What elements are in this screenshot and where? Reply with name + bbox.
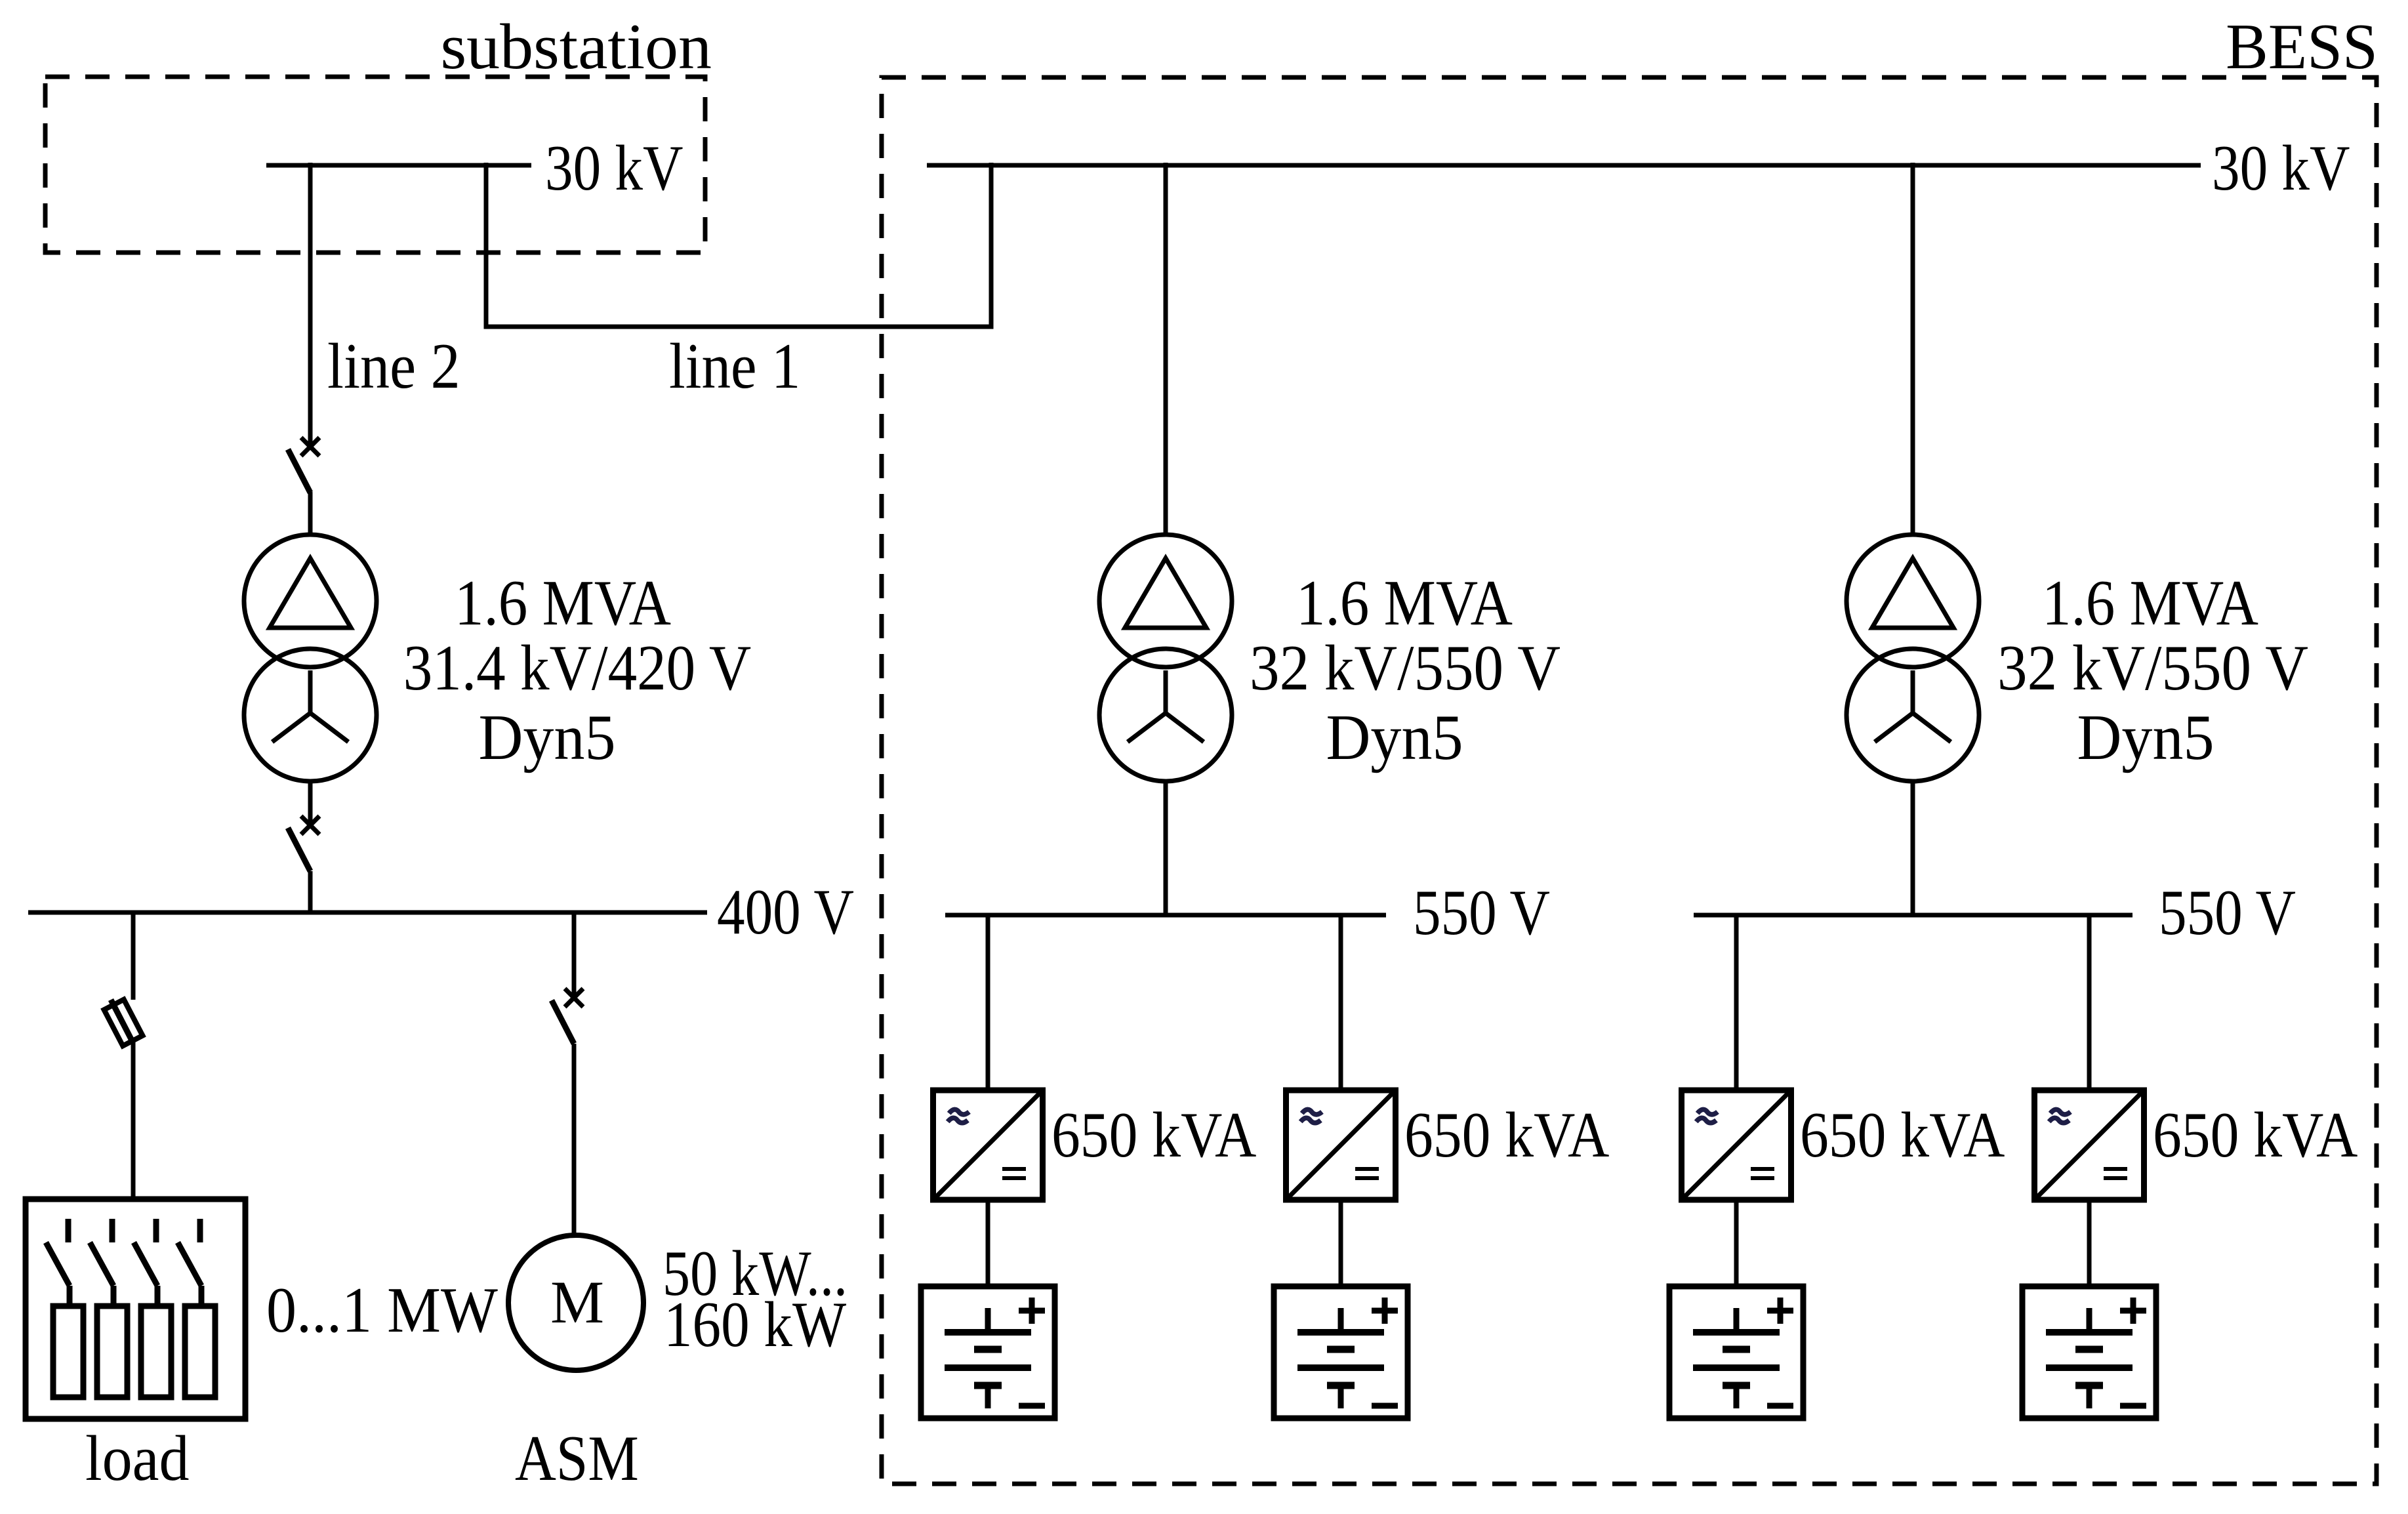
transformer T3 1.6 MVA 32 kV/550 V Dyn5 bbox=[1847, 535, 1979, 667]
svg-text:1.6 MVA: 1.6 MVA bbox=[455, 567, 671, 639]
switch S3 (motor switch) bbox=[565, 989, 583, 1007]
wire T2 to 550 V bus 1 bbox=[1164, 781, 1168, 915]
converter U4 AC/DC 650 kVA bbox=[2035, 1090, 2144, 1200]
dashed box BESS bbox=[882, 77, 2377, 1484]
wire T1 to switch S2 bbox=[308, 781, 313, 825]
wire T3 to 550 V bus 2 bbox=[1911, 781, 1915, 915]
fuse F1 with blade bbox=[111, 1000, 133, 1043]
wire 550 V bus left to converter U1 bbox=[986, 915, 990, 1090]
converter U3 AC/DC 650 kVA bbox=[1682, 1090, 1791, 1200]
wire converter U1 to battery B1 bbox=[986, 1200, 990, 1286]
wire 550 V bus left to converter U2 bbox=[1339, 915, 1343, 1090]
svg-text:Dyn5: Dyn5 bbox=[479, 701, 616, 773]
motor M1 ASM bbox=[508, 1235, 643, 1370]
wire S2 to 400 V bus bbox=[308, 871, 313, 912]
svg-text:550 V: 550 V bbox=[1413, 876, 1550, 948]
busbar 30 kV BESS bbox=[927, 163, 2201, 168]
wire converter U2 to battery B2 bbox=[1339, 1200, 1343, 1286]
svg-text:line 1: line 1 bbox=[669, 331, 800, 402]
svg-text:650 kVA: 650 kVA bbox=[1051, 1099, 1256, 1171]
wire 400 V bus to fuse F1 bbox=[131, 910, 136, 1000]
svg-text:load: load bbox=[85, 1422, 189, 1494]
svg-text:ASM: ASM bbox=[515, 1423, 639, 1494]
svg-text:M: M bbox=[550, 1269, 604, 1336]
wire 550 V bus right to converter U3 bbox=[1734, 915, 1739, 1090]
svg-text:550 V: 550 V bbox=[2159, 876, 2296, 948]
svg-text:0...1 MW: 0...1 MW bbox=[266, 1274, 499, 1346]
battery B4 (storage unit) bbox=[2022, 1286, 2156, 1418]
wire BESS bus to transformer T3 bbox=[1911, 163, 1915, 536]
svg-text:400 V: 400 V bbox=[717, 876, 854, 947]
svg-text:Dyn5: Dyn5 bbox=[2077, 701, 2214, 773]
converter U1 AC/DC 650 kVA bbox=[933, 1090, 1043, 1200]
battery B3 (storage unit) bbox=[1669, 1286, 1803, 1418]
wire line 1 (substation bus to BESS bus) bbox=[486, 163, 991, 327]
dashed box substation bbox=[45, 77, 705, 253]
transformer T1 1.6 MVA 31.4 kV/420 V Dyn5 bbox=[244, 535, 377, 667]
svg-text:32 kV/550 V: 32 kV/550 V bbox=[1250, 632, 1561, 704]
wire S1 to transformer T1 bbox=[308, 492, 313, 536]
svg-text:30 kV: 30 kV bbox=[2212, 132, 2350, 203]
svg-text:line 2: line 2 bbox=[327, 331, 460, 402]
svg-text:30 kV: 30 kV bbox=[545, 132, 683, 203]
wire S3 to motor M1 bbox=[572, 1044, 577, 1236]
switch S2 (disconnector below transformer T1) bbox=[301, 816, 319, 834]
busbar 550 V (left) bbox=[945, 913, 1386, 918]
converter U2 AC/DC 650 kVA bbox=[1286, 1090, 1396, 1200]
battery B1 (storage unit) bbox=[921, 1286, 1055, 1418]
busbar 400 V bbox=[28, 910, 707, 915]
wire converter U4 to battery B4 bbox=[2087, 1200, 2092, 1286]
busbar 30 kV substation bbox=[266, 163, 531, 168]
svg-text:160 kW: 160 kW bbox=[664, 1289, 846, 1361]
wire converter U3 to battery B3 bbox=[1734, 1200, 1739, 1286]
wire 550 V bus right to converter U4 bbox=[2087, 915, 2092, 1090]
switch S1 (disconnector above transformer T1) bbox=[301, 438, 319, 456]
busbar 550 V (right) bbox=[1694, 913, 2133, 918]
battery B2 (storage unit) bbox=[1274, 1286, 1408, 1418]
load bank (box with four switched resistors) bbox=[26, 1199, 245, 1419]
svg-text:650 kVA: 650 kVA bbox=[1800, 1099, 2005, 1171]
svg-text:1.6 MVA: 1.6 MVA bbox=[1296, 567, 1513, 639]
wire 400 V bus to switch S3 bbox=[572, 910, 577, 998]
wire line 2 (30 kV bus to switch S1) bbox=[308, 163, 313, 447]
svg-text:Dyn5: Dyn5 bbox=[1326, 701, 1463, 773]
svg-text:substation: substation bbox=[440, 10, 712, 82]
wire BESS bus to transformer T2 bbox=[1164, 163, 1168, 536]
svg-text:1.6 MVA: 1.6 MVA bbox=[2042, 567, 2258, 639]
svg-text:31.4 kV/420 V: 31.4 kV/420 V bbox=[403, 632, 751, 704]
svg-text:32 kV/550 V: 32 kV/550 V bbox=[1997, 632, 2308, 704]
svg-text:BESS: BESS bbox=[2226, 11, 2378, 83]
svg-text:650 kVA: 650 kVA bbox=[2153, 1099, 2357, 1171]
transformer T2 1.6 MVA 32 kV/550 V Dyn5 bbox=[1099, 535, 1232, 667]
wire fuse F1 to load box bbox=[131, 1042, 136, 1202]
svg-text:650 kVA: 650 kVA bbox=[1404, 1099, 1609, 1171]
